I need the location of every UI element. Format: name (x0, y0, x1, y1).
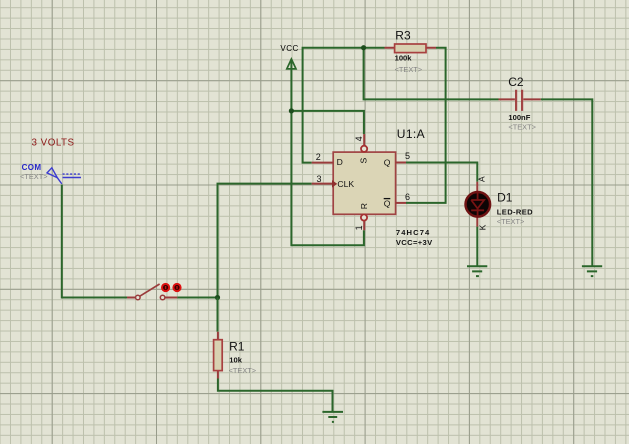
svg-text:LED-RED: LED-RED (497, 208, 533, 217)
pin 4 S-bar lead and bubble (363, 134, 365, 146)
svg-text:100nF: 100nF (508, 113, 530, 122)
switch SW1 (127, 284, 181, 300)
pin 6 Q-bar lead (396, 202, 406, 204)
svg-text:D1: D1 (497, 190, 513, 204)
svg-text:4: 4 (354, 136, 364, 141)
svg-text:A: A (477, 176, 487, 182)
svg-text:R1: R1 (229, 339, 245, 353)
svg-text:3: 3 (317, 174, 322, 184)
resistor R3 (385, 44, 437, 53)
pin 3 CLK lead (312, 183, 334, 185)
resistor R1 (214, 332, 223, 379)
wire LED cathode to ground (476, 227, 478, 266)
wire Q pin 5 to LED anode (406, 163, 477, 182)
svg-text:COM: COM (22, 163, 42, 172)
wire VCC rail down and to R-bar pin 1 (291, 59, 364, 245)
wire from top-rail junction down and right to C2 (364, 48, 499, 100)
svg-text:<TEXT>: <TEXT> (229, 366, 257, 375)
svg-text:VCC: VCC (280, 44, 298, 53)
svg-text:1: 1 (354, 225, 364, 230)
wire top rail from D corner to R3 left (303, 48, 385, 163)
switch actuator dots (162, 284, 169, 291)
wire terminal COM down to switch (62, 185, 127, 298)
svg-text:<TEXT>: <TEXT> (20, 172, 48, 181)
svg-text:D: D (337, 157, 343, 167)
svg-text:U1:A: U1:A (397, 127, 425, 141)
clock input marker (332, 181, 336, 187)
node junction on VCC rail (289, 108, 294, 113)
ground below C2 right (582, 266, 602, 276)
svg-text:<TEXT>: <TEXT> (395, 65, 423, 74)
capacitor C2 (499, 90, 541, 111)
node switch junction (215, 295, 220, 300)
svg-text:VCC=+3V: VCC=+3V (396, 238, 433, 247)
svg-text:CLK: CLK (337, 179, 354, 189)
svg-text:2: 2 (316, 152, 321, 162)
pin 5 Q lead (396, 162, 406, 164)
node junction on top rail (361, 45, 366, 50)
svg-text:R: R (359, 203, 369, 209)
wire CLK from switch junction (218, 184, 312, 298)
wire VCC branch to S-bar pin 4 (291, 111, 364, 134)
wire R3 right down to Q-bar pin 6 (406, 48, 446, 203)
svg-text:S: S (359, 158, 369, 164)
svg-text:<TEXT>: <TEXT> (497, 217, 525, 226)
op-amp U1 flip-flop body (312, 134, 406, 230)
ground below R1 (322, 412, 343, 422)
wire switch to junction (177, 297, 217, 299)
svg-text:Q: Q (384, 157, 391, 167)
wire junction down to R1 (217, 298, 219, 332)
LED D1 (466, 182, 491, 227)
svg-text:10k: 10k (229, 356, 242, 365)
svg-text:C2: C2 (508, 75, 524, 89)
svg-text:3 VOLTS: 3 VOLTS (32, 138, 75, 149)
terminal COM (blue flag) (47, 168, 81, 184)
wire R1 bottom to ground (218, 379, 333, 412)
wire C2 right to ground (541, 99, 593, 265)
svg-text:K: K (477, 224, 487, 230)
svg-text:6: 6 (405, 192, 410, 202)
svg-text:R3: R3 (395, 29, 411, 43)
svg-text:Q: Q (384, 198, 391, 208)
svg-text:<TEXT>: <TEXT> (508, 123, 536, 132)
ground below LED (467, 266, 487, 276)
pin 2 D lead (312, 162, 334, 164)
svg-text:100k: 100k (395, 54, 413, 63)
VCC power terminal (287, 59, 296, 69)
svg-text:74HC74: 74HC74 (396, 228, 430, 237)
pin 1 R-bar lead and bubble (363, 221, 365, 231)
svg-text:5: 5 (405, 151, 410, 161)
